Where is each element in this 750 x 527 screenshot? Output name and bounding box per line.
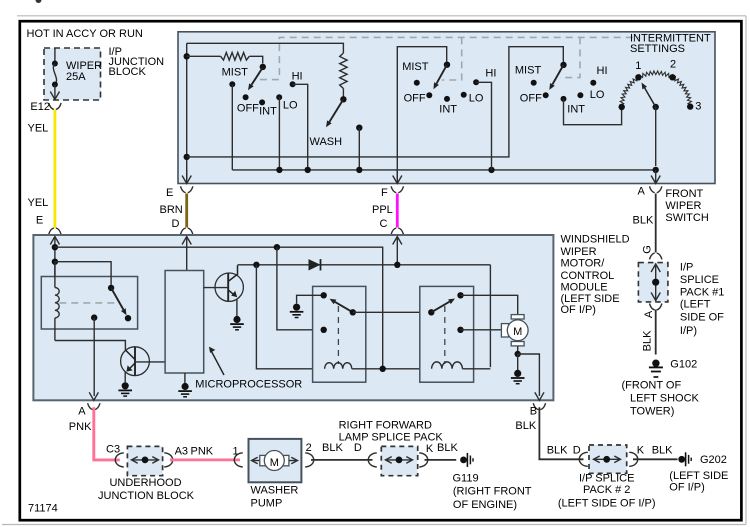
wash switch pivot	[340, 89, 346, 103]
contact OFF 1	[243, 94, 249, 100]
module B exit arrow	[533, 392, 545, 409]
contact HI 1	[290, 81, 296, 87]
svg-text:MICROPROCESSOR: MICROPROCESSOR	[195, 378, 302, 390]
node bus2 junctions	[276, 167, 659, 173]
svg-text:BRN: BRN	[160, 204, 183, 216]
I/P junction block dashed box	[44, 48, 101, 100]
wire bus2 common to terminal A	[232, 169, 655, 171]
mechanical linkage dashed line	[260, 37, 640, 80]
svg-text:M: M	[513, 326, 522, 338]
stray glyph fragment top-left	[36, 0, 42, 3]
svg-text:BLK: BLK	[547, 444, 568, 456]
svg-text:SIDE OF: SIDE OF	[680, 312, 724, 324]
wire HI1 to bus2	[292, 84, 308, 170]
svg-text:25A: 25A	[66, 71, 86, 83]
I/P splice pack #1 dashed box	[638, 263, 668, 302]
svg-text:OFF: OFF	[404, 93, 426, 105]
svg-text:LO: LO	[590, 89, 605, 101]
label K BLK after splice 2	[637, 444, 673, 456]
wire BLK module B to splice pack 2	[539, 407, 583, 459]
contact HI 3	[590, 80, 596, 86]
fuse WIPER 25A	[50, 48, 59, 100]
splice pack 1 internal node	[651, 264, 660, 302]
svg-text:(LEFT SIDE: (LEFT SIDE	[669, 470, 728, 482]
contact HI 2	[473, 79, 479, 85]
I/P splice pack #2 connector	[579, 445, 637, 473]
svg-text:1: 1	[635, 60, 641, 72]
svg-text:G102: G102	[670, 359, 697, 371]
svg-text:MIST: MIST	[402, 61, 429, 73]
svg-text:OF ENGINE): OF ENGINE)	[453, 499, 517, 511]
relay L blade	[111, 288, 123, 310]
contact INT 2	[444, 96, 450, 102]
svg-text:K: K	[426, 443, 434, 455]
switch group 3 pivot	[560, 61, 566, 68]
wire BLK splice 2 to G202	[633, 458, 678, 460]
svg-text:G: G	[642, 245, 654, 254]
svg-text:C: C	[380, 218, 388, 230]
wiper motor M	[501, 315, 528, 346]
node terminal 1	[635, 60, 641, 81]
wire BLK splice to G102	[655, 310, 657, 355]
label WIPER 25A	[66, 60, 102, 83]
svg-text:MODULE: MODULE	[561, 282, 608, 294]
wire motor to B exit	[515, 346, 540, 396]
svg-text:E: E	[166, 187, 173, 199]
module C entry arrow	[393, 237, 402, 265]
relay B coil	[432, 362, 463, 369]
label INTERMITTENT SETTINGS	[630, 32, 711, 55]
ground G102	[652, 360, 659, 367]
module E entry arrow	[50, 237, 59, 288]
svg-text:C3: C3	[106, 444, 120, 456]
svg-text:71174: 71174	[28, 502, 58, 514]
svg-text:HOT IN ACCY OR RUN: HOT IN ACCY OR RUN	[27, 28, 143, 40]
wire WASH contact to bus2	[358, 128, 360, 170]
ground Q2	[233, 316, 240, 323]
washer pump motor	[252, 451, 298, 471]
svg-text:BLK: BLK	[652, 444, 673, 456]
rheostat wiper arm	[642, 83, 659, 111]
label A / BLK	[633, 186, 654, 227]
svg-text:TOWER): TOWER)	[630, 406, 674, 418]
svg-text:UNDERHOOD: UNDERHOOD	[109, 477, 181, 489]
switch blade 3	[553, 65, 564, 84]
wire F riser and group2 feed	[397, 47, 446, 179]
svg-text:LEFT SHOCK: LEFT SHOCK	[630, 392, 700, 404]
svg-text:A: A	[638, 186, 646, 198]
relay L contact NO	[125, 315, 131, 321]
svg-text:INT: INT	[259, 105, 277, 117]
wash switch blade	[329, 99, 343, 122]
label RIGHT FORWARD LAMP SPLICE PACK	[339, 420, 444, 444]
svg-text:OFF: OFF	[237, 102, 259, 114]
label I/P SPLICE PACK #2	[558, 472, 656, 509]
wire PPL	[396, 194, 399, 228]
node top bus branch	[274, 244, 280, 250]
relay A coil	[325, 363, 352, 369]
node terminal 2	[669, 59, 676, 81]
wire relay L common to terminal A exit	[93, 318, 95, 396]
wire Q2 collector / diode line	[238, 264, 491, 266]
diode D1	[309, 259, 321, 270]
svg-text:SWITCH: SWITCH	[665, 212, 708, 224]
svg-text:I/P: I/P	[680, 262, 693, 274]
wire PNK module A to junction block	[94, 407, 120, 460]
contact WASH	[356, 125, 362, 131]
relay A contact upper (ground)	[321, 292, 327, 298]
relay B contact lower	[457, 327, 463, 333]
relay B contact upper	[457, 292, 463, 298]
svg-text:PACK # 2: PACK # 2	[583, 484, 631, 496]
resistor MIST feed	[187, 53, 263, 64]
wire BLK splice to G119	[425, 459, 457, 461]
relay A pivot	[350, 309, 356, 315]
mechanical link relay L	[59, 302, 117, 304]
svg-text:JUNCTION BLOCK: JUNCTION BLOCK	[98, 490, 195, 502]
svg-text:LO: LO	[469, 93, 484, 105]
relay A ground wire	[290, 295, 324, 317]
node C entry on diode wire	[394, 262, 400, 268]
mechanical link relay B	[444, 306, 446, 364]
label RIGHT FRONT OF ENGINE	[453, 486, 532, 511]
label A3 PNK 1	[175, 446, 239, 458]
svg-text:F: F	[381, 187, 388, 199]
label LEFT SIDE OF I/P (G202)	[669, 470, 728, 494]
label B / BLK at module B exit	[515, 405, 537, 432]
wire coil L to Q1	[55, 341, 126, 351]
wire relay L pivot feed	[55, 262, 111, 285]
contact LO 3	[577, 92, 583, 98]
node branch to relay coils	[253, 262, 259, 268]
mechanical link relay A	[337, 306, 339, 364]
switch group 1 pivot	[260, 64, 266, 70]
contact LO 2	[461, 92, 467, 98]
node junction E top	[184, 53, 190, 59]
svg-text:2: 2	[670, 59, 676, 71]
relay B pivot	[428, 309, 434, 315]
windshield wiper motor/control module box	[33, 235, 553, 400]
labels group 3	[515, 65, 608, 116]
switch blade 1	[252, 67, 263, 84]
svg-text:D: D	[172, 218, 180, 230]
ground G119	[460, 457, 467, 464]
svg-text:PNK: PNK	[69, 421, 92, 433]
svg-text:FRONT: FRONT	[665, 188, 703, 200]
svg-text:(FRONT OF: (FRONT OF	[622, 379, 682, 391]
svg-text:(LEFT: (LEFT	[680, 299, 711, 311]
svg-text:K: K	[637, 445, 645, 457]
label FRONT OF LEFT SHOCK TOWER	[622, 379, 700, 417]
svg-text:M: M	[270, 457, 279, 469]
wire branch to relay A lower contact	[277, 247, 320, 330]
svg-text:LO: LO	[283, 100, 298, 112]
svg-text:MOTOR/: MOTOR/	[561, 258, 606, 270]
svg-text:YEL: YEL	[28, 123, 49, 135]
labels group 1	[222, 67, 303, 118]
svg-text:PPL: PPL	[372, 204, 393, 216]
switch group 2 pivot	[444, 61, 450, 67]
resistor WASH	[340, 53, 347, 89]
terminal E12 connector	[30, 101, 61, 113]
svg-text:HI: HI	[485, 68, 496, 80]
relay A blade	[335, 302, 353, 312]
svg-text:WASHER: WASHER	[251, 485, 299, 497]
washer pump connector left	[234, 453, 243, 467]
contact INT 3	[561, 96, 567, 102]
svg-text:I/P SPLICE: I/P SPLICE	[579, 472, 634, 484]
svg-text:A3: A3	[175, 446, 188, 458]
microprocessor U1 box	[165, 271, 204, 374]
svg-text:WIPER: WIPER	[665, 200, 701, 212]
relay L common contact	[91, 314, 97, 320]
ground microprocessor	[178, 373, 192, 397]
ground Q1	[122, 382, 129, 389]
wire BRN	[185, 194, 188, 228]
module E entry connector	[49, 228, 54, 234]
wire switch feed E riser	[186, 43, 188, 179]
ground motor	[511, 354, 525, 384]
svg-text:YEL: YEL	[28, 197, 49, 209]
contact INT 1	[259, 99, 265, 105]
module C entry connector	[391, 228, 396, 234]
label I/P JUNCTION BLOCK	[109, 46, 165, 78]
svg-text:BLK: BLK	[642, 330, 654, 351]
wire coil B to diode wire	[462, 368, 490, 370]
svg-text:E12: E12	[30, 101, 50, 113]
label WINDSHIELD WIPER MOTOR/CONTROL MODULE	[561, 234, 630, 317]
svg-text:E: E	[36, 214, 43, 226]
svg-text:BLK: BLK	[633, 215, 654, 227]
left relay box	[41, 277, 137, 330]
transistor Q2	[204, 265, 244, 316]
label BLK D before splice 2	[547, 444, 581, 456]
svg-text:OF I/P): OF I/P)	[561, 304, 596, 316]
svg-text:OFF: OFF	[520, 93, 542, 105]
svg-text:D: D	[354, 442, 362, 454]
label WASHER PUMP	[251, 485, 299, 510]
node E top bus	[52, 244, 58, 250]
wire BLK washer pump to lamp splice pack	[311, 459, 373, 461]
module D entry connector	[181, 228, 186, 234]
svg-text:MIST: MIST	[222, 67, 249, 79]
relay A contact lower	[321, 327, 327, 333]
label E / BRN / D	[160, 187, 183, 230]
right forward lamp splice pack connector	[368, 446, 427, 475]
svg-text:A: A	[643, 310, 655, 318]
svg-text:G202: G202	[700, 454, 727, 466]
label UNDERHOOD JUNCTION BLOCK	[98, 477, 195, 502]
svg-text:G119: G119	[453, 473, 479, 485]
front wiper switch box	[178, 32, 715, 184]
label YEL / E at module entry	[28, 197, 49, 227]
relay L pivot	[108, 285, 114, 291]
washer pump box	[249, 439, 302, 482]
label K BLK	[426, 442, 459, 455]
label FRONT WIPER SWITCH	[665, 188, 708, 224]
wire common relay A to relay B	[353, 311, 432, 313]
contact OFF 3	[543, 92, 549, 98]
svg-text:WINDSHIELD: WINDSHIELD	[561, 234, 630, 246]
wire INT3 to rheostat	[564, 99, 622, 125]
svg-text:INT: INT	[567, 103, 585, 115]
relay A box	[313, 286, 366, 382]
svg-text:WIPER: WIPER	[561, 246, 597, 258]
label A / PNK at module A exit	[69, 406, 92, 433]
wire MIST1 to bus2	[231, 84, 233, 170]
svg-text:LAMP SPLICE PACK: LAMP SPLICE PACK	[339, 431, 444, 443]
svg-text:B: B	[530, 405, 537, 417]
module A exit arrow	[88, 392, 100, 409]
wire wiper to terminal A	[655, 107, 657, 166]
wire relay B lower contact to motor brush	[461, 329, 509, 331]
svg-text:HI: HI	[597, 65, 608, 77]
switch blade 2	[437, 65, 448, 84]
svg-text:MIST: MIST	[515, 65, 542, 77]
rheostat terminal left	[619, 104, 625, 110]
label F / PPL / C	[372, 187, 393, 230]
svg-text:3: 3	[695, 100, 701, 112]
node junction E bus1	[184, 154, 190, 160]
svg-text:BLK: BLK	[515, 420, 536, 432]
svg-text:INT: INT	[439, 103, 457, 115]
washer pump connector right	[305, 453, 314, 467]
svg-text:SETTINGS: SETTINGS	[630, 43, 685, 55]
wire module top bus	[55, 247, 383, 367]
wire YEL fuse to module	[28, 110, 55, 229]
svg-text:PACK #1: PACK #1	[680, 287, 724, 299]
contact LO 1	[276, 94, 282, 100]
relay B box	[420, 286, 474, 382]
svg-text:RIGHT FORWARD: RIGHT FORWARD	[339, 420, 432, 432]
svg-text:PNK: PNK	[191, 446, 214, 458]
wire coil A to coil B with junction	[352, 366, 432, 372]
svg-text:SPLICE: SPLICE	[680, 274, 719, 286]
svg-text:PUMP: PUMP	[251, 498, 283, 510]
svg-text:2: 2	[306, 442, 312, 454]
wire PNK junction block to washer pump	[170, 458, 240, 461]
terminal E exit arrow	[181, 170, 193, 193]
labels group 2	[402, 61, 496, 115]
relay B blade	[431, 302, 449, 313]
wire bus1 E to group3 feed	[187, 47, 564, 157]
contact MIST 1	[229, 81, 235, 87]
wire relay B upper contact to motor	[461, 295, 518, 314]
svg-text:I/P): I/P)	[680, 325, 697, 337]
contact MIST 3	[531, 80, 537, 86]
svg-text:WASH: WASH	[310, 136, 343, 148]
svg-text:A: A	[78, 406, 86, 418]
wire LO1 to bus2	[278, 97, 280, 170]
relay L coil	[55, 262, 59, 341]
wire HI2 to bus2	[476, 82, 491, 170]
node E relay feed	[52, 259, 58, 265]
annotation arrow to microprocessor	[209, 347, 224, 375]
splice pack 1 exit connector	[650, 304, 655, 310]
node terminal 3	[687, 100, 701, 112]
contact MIST 2	[414, 80, 420, 86]
terminal F exit arrow	[391, 170, 403, 193]
splice pack 1 entry connector	[650, 253, 655, 259]
svg-text:OF I/P): OF I/P)	[669, 482, 704, 494]
label I/P SPLICE PACK #1	[680, 262, 724, 337]
svg-text:BLK: BLK	[322, 442, 343, 454]
transistor Q1	[121, 347, 166, 382]
wire top feed to wash resistor	[187, 43, 344, 53]
contact OFF 2	[426, 92, 432, 98]
svg-text:CONTROL: CONTROL	[561, 270, 615, 282]
rheostat intermittent settings arc	[620, 71, 692, 107]
svg-text:HI: HI	[292, 71, 303, 83]
label 2 BLK D	[306, 442, 362, 454]
svg-text:D: D	[573, 444, 581, 456]
svg-text:(RIGHT FRONT: (RIGHT FRONT	[453, 486, 532, 498]
ground G202	[678, 456, 685, 463]
svg-text:BLK: BLK	[437, 442, 458, 454]
svg-text:(LEFT SIDE OF I/P): (LEFT SIDE OF I/P)	[558, 497, 656, 509]
terminal A exit arrow	[650, 170, 662, 193]
wire branch down to coil A	[256, 265, 324, 369]
module D entry arrow	[182, 237, 191, 271]
underhood junction block connector	[115, 446, 172, 475]
svg-text:BLOCK: BLOCK	[109, 66, 147, 78]
wire BLK A to splice pack 1	[655, 194, 657, 253]
